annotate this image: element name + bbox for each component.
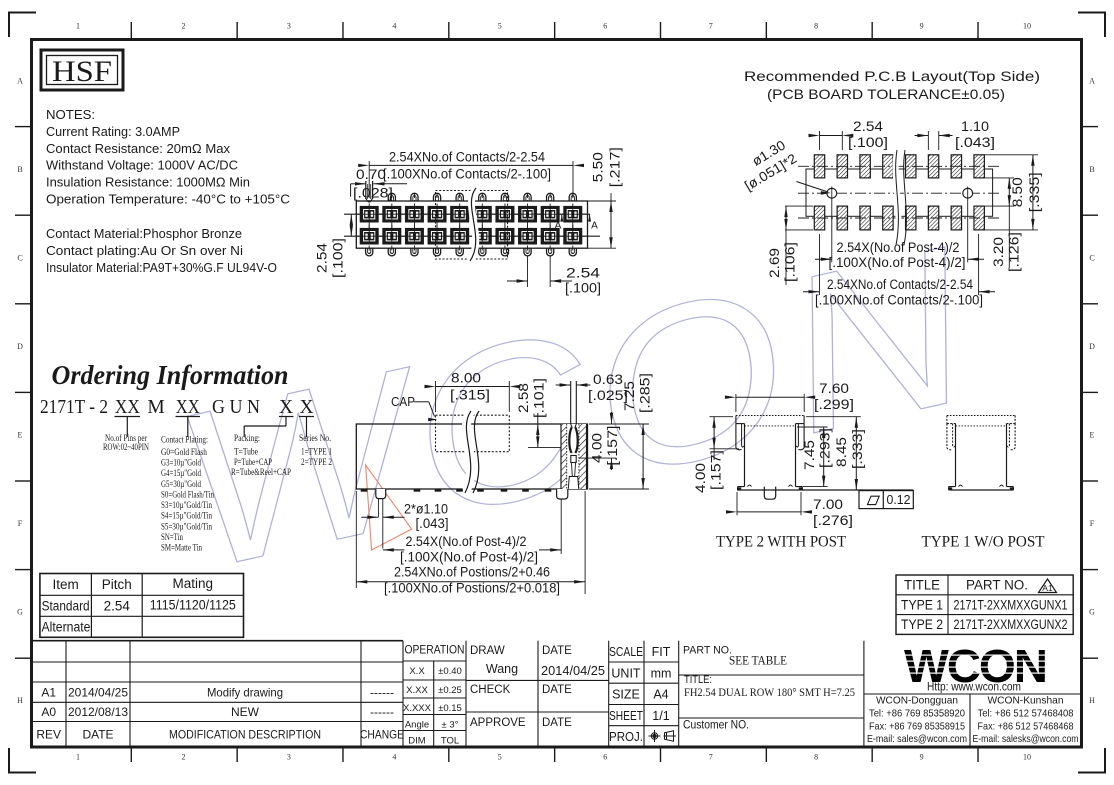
- svg-text:DATE: DATE: [542, 645, 572, 657]
- svg-text:8: 8: [814, 22, 818, 31]
- svg-text:CHANGE: CHANGE: [360, 728, 404, 742]
- svg-text:±0.25: ±0.25: [438, 685, 462, 696]
- svg-text:[.333]: [.333]: [850, 429, 865, 469]
- svg-text:(PCB BOARD TOLERANCE±0.05): (PCB BOARD TOLERANCE±0.05): [767, 87, 1005, 102]
- svg-text:Standard: Standard: [42, 599, 90, 614]
- svg-text:TYPE 1: TYPE 1: [901, 597, 943, 612]
- svg-text:G U N: G U N: [212, 397, 260, 418]
- svg-text:D: D: [17, 342, 23, 351]
- svg-text:Recommended P.C.B Layout(Top: Recommended P.C.B Layout(Top Side): [744, 69, 1040, 84]
- svg-text:DRAW: DRAW: [470, 645, 505, 657]
- svg-text:MODIFICATION DESCRIPTION: MODIFICATION DESCRIPTION: [169, 728, 321, 742]
- svg-text:TYPE 1 W/O POST: TYPE 1 W/O POST: [922, 534, 1046, 551]
- svg-text:WCON-Dongguan: WCON-Dongguan: [876, 695, 958, 707]
- svg-text:[.043]: [.043]: [416, 516, 449, 531]
- svg-text:NEW: NEW: [231, 705, 260, 719]
- svg-text:2: 2: [181, 753, 185, 762]
- svg-text:2171T - 2: 2171T - 2: [40, 397, 108, 418]
- svg-text:7: 7: [709, 753, 713, 762]
- svg-text:XX: XX: [176, 397, 200, 418]
- svg-text:HSF: HSF: [52, 55, 112, 88]
- svg-text:H: H: [17, 696, 23, 705]
- svg-text:1=TYPE 1: 1=TYPE 1: [301, 448, 332, 458]
- svg-text:D: D: [1089, 342, 1095, 351]
- svg-text:3: 3: [287, 753, 291, 762]
- svg-text:4.00: 4.00: [590, 433, 605, 463]
- svg-text:2012/08/13: 2012/08/13: [68, 705, 128, 719]
- svg-text:Contact Material:Phosphor Br: Contact Material:Phosphor Bronze: [46, 226, 242, 241]
- svg-text:[.100XNo.of Contacts/2-.100]: [.100XNo.of Contacts/2-.100]: [383, 167, 551, 182]
- svg-text:P=Tube+CAP: P=Tube+CAP: [234, 458, 272, 468]
- svg-text:2.54: 2.54: [104, 599, 131, 614]
- svg-text:8.45: 8.45: [834, 437, 849, 467]
- svg-text:2.54: 2.54: [315, 242, 330, 273]
- svg-text:TYPE 2 WITH POST: TYPE 2 WITH POST: [716, 534, 847, 551]
- svg-text:[.100XNo.of Contacts/2-.100]: [.100XNo.of Contacts/2-.100]: [815, 293, 983, 308]
- svg-text:[.126]: [.126]: [1007, 232, 1022, 272]
- svg-text:G: G: [1089, 607, 1095, 616]
- svg-text:A: A: [1089, 76, 1095, 85]
- svg-text:X.X: X.X: [409, 666, 425, 677]
- svg-text:TITLE: TITLE: [904, 578, 940, 593]
- svg-text:X.XXX: X.XXX: [403, 703, 432, 714]
- svg-text:2.54X(No.of Post-4)/2: 2.54X(No.of Post-4)/2: [406, 534, 527, 549]
- svg-text:G3=10µ"Gold: G3=10µ"Gold: [161, 458, 201, 468]
- svg-text:G4=15µ"Gold: G4=15µ"Gold: [161, 469, 201, 479]
- svg-text:7.60: 7.60: [819, 381, 849, 396]
- svg-text:2=TYPE 2: 2=TYPE 2: [301, 458, 332, 468]
- svg-text:Modify drawing: Modify drawing: [207, 686, 283, 700]
- svg-text:S5=30µ"Gold/Tin: S5=30µ"Gold/Tin: [161, 522, 212, 532]
- svg-text:Withstand Voltage: 1000V AC: Withstand Voltage: 1000V AC/DC: [46, 158, 238, 173]
- svg-text:E: E: [1090, 430, 1095, 439]
- svg-text:DIM: DIM: [408, 736, 426, 747]
- svg-text:[.293]: [.293]: [818, 428, 833, 468]
- svg-text:±0.15: ±0.15: [438, 703, 462, 714]
- svg-text:APPROVE: APPROVE: [470, 717, 526, 729]
- svg-text:Mating: Mating: [173, 576, 214, 591]
- svg-text:7.00: 7.00: [813, 497, 843, 512]
- svg-text:------: ------: [370, 686, 394, 700]
- svg-text:Insulation Resistance: 1000M: Insulation Resistance: 1000MΩ Min: [46, 175, 250, 190]
- svg-text:Item: Item: [52, 577, 78, 592]
- svg-text:[.100]: [.100]: [565, 281, 601, 296]
- svg-text:8.00: 8.00: [451, 371, 481, 386]
- svg-text:PART NO.: PART NO.: [683, 645, 732, 657]
- svg-text:2.54XNo.of Postions/2+0.46: 2.54XNo.of Postions/2+0.46: [394, 565, 550, 580]
- svg-text:8.50: 8.50: [1010, 177, 1025, 207]
- svg-text:[.100X(No.of Post-4)/2]: [.100X(No.of Post-4)/2]: [400, 550, 538, 565]
- svg-text:2171T-2XXMXXGUNX2: 2171T-2XXMXXGUNX2: [954, 617, 1068, 632]
- svg-text:6: 6: [603, 22, 607, 31]
- svg-text:2.54: 2.54: [566, 266, 601, 281]
- svg-text:E-mail: sales@wcon.com: E-mail: sales@wcon.com: [867, 733, 967, 745]
- svg-text:2171T-2XXMXXGUNX1: 2171T-2XXMXXGUNX1: [954, 597, 1068, 612]
- svg-text:FH2.54 DUAL ROW 180° SMT: FH2.54 DUAL ROW 180° SMT H=7.25: [684, 685, 855, 699]
- svg-text:[.157]: [.157]: [709, 450, 724, 490]
- svg-text:Http: www.wcon.com: Http: www.wcon.com: [927, 682, 1021, 694]
- svg-text:[.106]: [.106]: [783, 242, 798, 282]
- svg-text:DATE: DATE: [542, 717, 572, 729]
- svg-text:Customer NO.: Customer NO.: [683, 720, 749, 732]
- svg-text:2.54XNo.of Contacts/2-2.54: 2.54XNo.of Contacts/2-2.54: [827, 277, 973, 292]
- svg-text:[.276]: [.276]: [813, 513, 853, 528]
- svg-text:2.54XNo.of Contacts/2-2.54: 2.54XNo.of Contacts/2-2.54: [389, 150, 545, 165]
- svg-text:A: A: [555, 221, 562, 232]
- svg-text:2: 2: [181, 22, 185, 31]
- svg-text:Packing:: Packing:: [234, 434, 260, 444]
- svg-text:0.63: 0.63: [593, 372, 623, 387]
- svg-text:SCALE: SCALE: [609, 645, 643, 659]
- svg-text:5: 5: [498, 753, 502, 762]
- svg-text:A1: A1: [41, 686, 56, 700]
- svg-text:Operation Temperature: -40°C: Operation Temperature: -40°C to +105°C: [46, 192, 290, 207]
- svg-text:X: X: [299, 397, 313, 418]
- svg-text:OPERATION: OPERATION: [405, 643, 465, 657]
- svg-text:B: B: [17, 165, 22, 174]
- svg-text:E-mail: salesks@wcon.com: E-mail: salesks@wcon.com: [973, 733, 1079, 745]
- svg-text:G0=Gold Flash: G0=Gold Flash: [161, 448, 207, 458]
- svg-text:NOTES:: NOTES:: [46, 107, 95, 122]
- svg-text:CHECK: CHECK: [470, 684, 511, 696]
- svg-text:SN=Tin: SN=Tin: [161, 533, 183, 543]
- svg-text:DATE: DATE: [542, 684, 572, 696]
- svg-text:Series No.: Series No.: [299, 434, 331, 444]
- svg-text:Alternate: Alternate: [42, 620, 91, 635]
- svg-text:[.285]: [.285]: [638, 373, 653, 413]
- svg-text:9: 9: [920, 22, 924, 31]
- svg-text:Fax: +86 512 57468468: Fax: +86 512 57468468: [978, 721, 1074, 733]
- svg-text:3: 3: [287, 22, 291, 31]
- svg-text:E: E: [18, 430, 23, 439]
- svg-text:G: G: [17, 607, 23, 616]
- svg-text:Tel: +86 769 85358920: Tel: +86 769 85358920: [869, 708, 965, 720]
- svg-text:[.100X(No.of Post-4)/2]: [.100X(No.of Post-4)/2]: [829, 255, 966, 270]
- svg-text:A: A: [17, 76, 23, 85]
- svg-text:SEE TABLE: SEE TABLE: [729, 653, 787, 668]
- svg-text:3.20: 3.20: [991, 237, 1006, 267]
- svg-text:G5=30µ"Gold: G5=30µ"Gold: [161, 480, 201, 490]
- svg-text:DATE: DATE: [82, 728, 113, 742]
- svg-text:1/1: 1/1: [652, 709, 669, 723]
- svg-text:[.299]: [.299]: [814, 397, 854, 412]
- svg-text:4: 4: [392, 22, 396, 31]
- svg-text:2.69: 2.69: [767, 248, 782, 278]
- svg-text:C: C: [1089, 253, 1094, 262]
- svg-text:Current Rating: 3.0AMP: Current Rating: 3.0AMP: [46, 124, 180, 139]
- svg-text:9: 9: [920, 753, 924, 762]
- svg-text:[.100]: [.100]: [331, 238, 346, 278]
- svg-text:REV: REV: [36, 728, 61, 742]
- svg-text:UNIT: UNIT: [611, 666, 641, 680]
- svg-text:CAP: CAP: [391, 395, 415, 409]
- svg-text:SM=Matte Tin: SM=Matte Tin: [161, 544, 202, 554]
- svg-text:A1: A1: [1042, 583, 1053, 593]
- svg-text:4: 4: [392, 753, 396, 762]
- svg-text:5.50: 5.50: [590, 152, 605, 182]
- svg-text:4.00: 4.00: [693, 463, 708, 493]
- svg-text:X.XX: X.XX: [406, 685, 428, 696]
- svg-text:F: F: [1090, 519, 1095, 528]
- svg-text:mm: mm: [651, 666, 672, 680]
- svg-text:1.10: 1.10: [961, 119, 989, 134]
- svg-text:SHEET: SHEET: [609, 709, 643, 723]
- svg-text:R=Tube&Reel+CAP: R=Tube&Reel+CAP: [231, 468, 291, 478]
- svg-text:10: 10: [1023, 753, 1031, 762]
- svg-text:[.217]: [.217]: [608, 147, 623, 187]
- svg-text:Fax: +86 769 85358915: Fax: +86 769 85358915: [869, 721, 965, 733]
- svg-text:Contact Plating:: Contact Plating:: [161, 435, 208, 445]
- svg-text:Contact plating:Au Or Sn o: Contact plating:Au Or Sn over Ni: [46, 243, 243, 258]
- svg-text:7: 7: [709, 22, 713, 31]
- svg-text:[.043]: [.043]: [955, 135, 995, 150]
- svg-text:C: C: [17, 253, 22, 262]
- svg-text:7.25: 7.25: [622, 381, 637, 411]
- svg-text:------: ------: [370, 705, 394, 719]
- svg-text:ROW:02~40PIN: ROW:02~40PIN: [103, 442, 149, 452]
- svg-text:[.100]: [.100]: [848, 135, 888, 150]
- svg-text:M: M: [147, 397, 164, 418]
- svg-text:A4: A4: [653, 688, 668, 702]
- svg-text:PROJ.: PROJ.: [609, 730, 643, 744]
- svg-text:[.315]: [.315]: [450, 388, 490, 403]
- svg-text:S3=10µ"Gold/Tin: S3=10µ"Gold/Tin: [161, 501, 212, 511]
- svg-text:[.335]: [.335]: [1027, 172, 1042, 212]
- svg-text:5: 5: [498, 22, 502, 31]
- svg-text:7.45: 7.45: [802, 440, 817, 470]
- svg-text:S0=Gold Flash/Tin: S0=Gold Flash/Tin: [161, 490, 214, 500]
- svg-text:2.54: 2.54: [853, 119, 884, 134]
- svg-text:2.58: 2.58: [516, 383, 531, 413]
- svg-text:2014/04/25: 2014/04/25: [541, 663, 605, 678]
- svg-text:TOL: TOL: [441, 736, 459, 747]
- svg-text:X: X: [279, 397, 293, 418]
- svg-text:T=Tube: T=Tube: [234, 448, 258, 458]
- svg-text:FIT: FIT: [652, 645, 671, 659]
- svg-text:Angle: Angle: [405, 720, 429, 731]
- svg-text:Ordering Information: Ordering Information: [52, 360, 289, 390]
- svg-text:Pitch: Pitch: [102, 577, 132, 592]
- svg-text:Tel: +86 512 57468408: Tel: +86 512 57468408: [978, 708, 1074, 720]
- svg-text:6: 6: [603, 753, 607, 762]
- svg-text:0.12: 0.12: [887, 492, 911, 507]
- svg-text:0.70: 0.70: [356, 167, 386, 182]
- svg-text:[.101]: [.101]: [532, 378, 547, 418]
- svg-text:8: 8: [814, 753, 818, 762]
- svg-text:B: B: [1089, 165, 1094, 174]
- svg-text:Insulator Material:PA9T+30%G.: Insulator Material:PA9T+30%G.F UL94V-O: [46, 260, 277, 275]
- svg-text:1: 1: [76, 753, 80, 762]
- svg-text:S4=15µ"Gold/Tin: S4=15µ"Gold/Tin: [161, 512, 212, 522]
- svg-text:A0: A0: [41, 705, 56, 719]
- svg-text:2.54X(No.of Post-4)/2: 2.54X(No.of Post-4)/2: [837, 240, 960, 255]
- svg-text:10: 10: [1023, 22, 1031, 31]
- svg-text:2014/04/25: 2014/04/25: [68, 686, 128, 700]
- svg-text:[.157]: [.157]: [605, 426, 620, 466]
- svg-text:F: F: [18, 519, 23, 528]
- svg-text:[.028]: [.028]: [353, 186, 393, 201]
- svg-text:2*ø1.10: 2*ø1.10: [404, 502, 448, 517]
- svg-text:1115/1120/1125: 1115/1120/1125: [150, 598, 236, 613]
- svg-text:A: A: [591, 221, 598, 232]
- svg-text:Wang: Wang: [486, 662, 518, 676]
- svg-text:±0.40: ±0.40: [438, 666, 462, 677]
- svg-text:TYPE 2: TYPE 2: [901, 617, 943, 632]
- svg-text:± 3°: ± 3°: [442, 720, 459, 731]
- svg-text:H: H: [1089, 696, 1095, 705]
- svg-text:1: 1: [76, 22, 80, 31]
- svg-text:PART NO.: PART NO.: [966, 578, 1028, 593]
- svg-text:XX: XX: [115, 397, 140, 418]
- svg-text:[.100XNo.of Postions/2+0.018]: [.100XNo.of Postions/2+0.018]: [384, 581, 560, 596]
- svg-text:SIZE: SIZE: [612, 688, 640, 702]
- svg-text:Contact Resistance: 20mΩ Ma: Contact Resistance: 20mΩ Max: [46, 141, 230, 156]
- svg-text:WCON-Kunshan: WCON-Kunshan: [988, 695, 1064, 707]
